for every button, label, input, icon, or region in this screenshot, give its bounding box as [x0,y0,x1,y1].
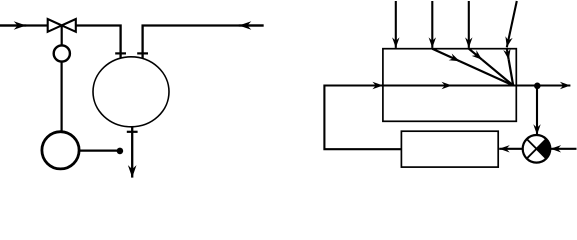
summer cross diagonal 2 [527,139,547,159]
summer filled east quadrant [537,139,551,159]
wire inlet pipe arrow [0,24,26,26]
wire pipe valve to vessel [76,26,121,61]
node output junction dot [534,83,541,90]
block R (controller) [401,131,498,167]
summer cross diagonal 1 [527,139,547,159]
wire input through block [383,84,452,86]
nozzle tick left [115,52,126,54]
wire feedback loop [324,86,401,150]
wire summer to controller block [499,148,522,150]
fan line B [469,49,482,60]
controller circle [42,132,79,169]
vessel T1 [93,57,169,127]
nozzle tick bottom [127,131,138,133]
nozzle tick right [137,52,148,54]
instrument circle (valve actuator) [54,45,70,61]
disturbance arrow f2 [431,1,433,48]
wire return pipe arrow [239,24,264,26]
block P (process) [383,49,516,122]
control valve V1 [48,19,76,32]
disturbance arrow f3 [468,1,470,48]
wire controller output [79,150,117,152]
node junction dot [117,148,124,155]
wire vessel outlet [131,127,133,178]
wire junction down to summer [536,86,538,135]
wire inlet pipe [0,24,48,26]
wire instrument to controller [60,62,62,132]
disturbance arrow f1 [395,1,397,48]
disturbance arrow f4 slanted [507,1,517,47]
wire valve stem [61,25,63,45]
summing junction S1 [523,135,551,163]
wire output [516,84,570,86]
wire setpoint input from right [551,148,577,150]
fan line C [507,49,509,60]
fan line A [432,49,460,62]
wire return pipe from right [143,26,264,61]
